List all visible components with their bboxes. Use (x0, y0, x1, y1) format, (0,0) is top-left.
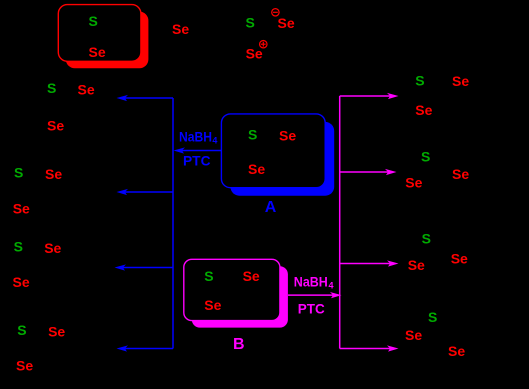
svg-text:Se: Se (448, 343, 465, 359)
svg-text:S: S (204, 268, 213, 284)
magenta arrow 3 (340, 260, 399, 266)
svg-text:B: B (233, 336, 245, 353)
svg-text:Se: Se (48, 324, 65, 340)
blue arrow 2 (117, 189, 174, 195)
magenta arrow 1 (340, 93, 399, 99)
svg-text:4: 4 (212, 136, 217, 146)
magenta distribution vertical line (339, 96, 341, 349)
svg-text:Se: Se (13, 201, 30, 217)
svg-text:Se: Se (278, 15, 295, 31)
svg-text:S: S (421, 149, 430, 165)
box B shadow (192, 266, 288, 327)
svg-text:Se: Se (415, 102, 432, 118)
zwitterion minus charge (272, 9, 279, 16)
svg-text:A: A (265, 199, 277, 216)
blue arrow 3 (115, 264, 174, 270)
svg-text:Se: Se (405, 175, 422, 191)
magenta arrow 4 (340, 345, 399, 351)
reactant box (red, top-left) (58, 5, 141, 62)
svg-text:NaBH: NaBH (179, 128, 212, 144)
reactant box (red, top-left) shadow (66, 12, 149, 69)
magenta arrow 2 (340, 169, 397, 175)
svg-text:Se: Se (89, 44, 106, 60)
blue arrow 4 (117, 345, 174, 351)
svg-text:S: S (89, 13, 98, 29)
svg-text:Se: Se (246, 46, 263, 62)
svg-text:S: S (14, 165, 23, 181)
svg-text:S: S (248, 127, 257, 143)
svg-text:Se: Se (44, 240, 61, 256)
svg-text:Se: Se (451, 251, 468, 267)
svg-text:Se: Se (47, 118, 64, 134)
svg-text:S: S (14, 239, 23, 255)
svg-text:Se: Se (45, 166, 62, 182)
svg-text:Se: Se (405, 327, 422, 343)
svg-text:4: 4 (329, 281, 334, 291)
svg-text:NaBH: NaBH (294, 274, 328, 290)
svg-text:S: S (428, 309, 437, 325)
svg-text:Se: Se (452, 73, 469, 89)
svg-text:S: S (246, 15, 255, 31)
label NaBH4 (magenta) (294, 274, 334, 291)
svg-text:Se: Se (243, 268, 260, 284)
box A shadow (230, 122, 334, 196)
svg-text:Se: Se (78, 82, 95, 98)
svg-text:PTC: PTC (183, 153, 211, 169)
svg-text:S: S (17, 322, 26, 338)
svg-text:S: S (422, 231, 431, 247)
svg-text:Se: Se (279, 128, 296, 144)
blue distribution vertical line (172, 98, 174, 349)
svg-text:PTC: PTC (298, 301, 325, 317)
svg-text:Se: Se (248, 161, 265, 177)
blue arrow from box A into line (174, 147, 222, 153)
box B (184, 259, 280, 320)
svg-text:S: S (415, 73, 424, 89)
svg-text:Se: Se (452, 166, 469, 182)
box A (221, 114, 325, 188)
label NaBH4 (blue) (179, 128, 217, 145)
svg-text:Se: Se (16, 358, 33, 374)
svg-text:S: S (47, 80, 56, 96)
blue arrow 1 (117, 95, 174, 101)
svg-text:Se: Se (13, 274, 30, 290)
svg-text:Se: Se (408, 257, 425, 273)
zwitterion plus charge (260, 41, 267, 48)
svg-text:Se: Se (204, 297, 221, 313)
magenta arrow from box B into line (288, 292, 342, 298)
svg-text:Se: Se (172, 21, 189, 37)
